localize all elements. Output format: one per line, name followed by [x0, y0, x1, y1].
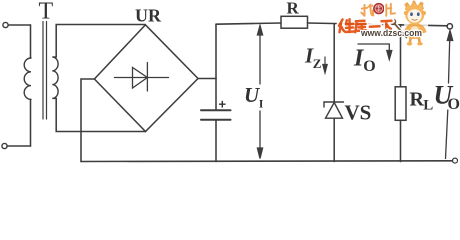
- terminal top-left: [3, 22, 8, 27]
- watermark text 维库一下: [339, 19, 392, 32]
- left arm: [404, 25, 411, 36]
- watermark glyph 找: [361, 5, 373, 16]
- transformer core: [42, 22, 44, 120]
- wire primary bottom: [7, 145, 31, 147]
- zener wire bottom: [333, 118, 335, 161]
- wire node up to top rail: [215, 24, 217, 78]
- legs: [410, 39, 420, 44]
- terminal bottom-right: [453, 158, 458, 163]
- wire capacitor bottom lead: [215, 121, 217, 162]
- svg-text:VS: VS: [345, 101, 372, 125]
- crown: [406, 1, 424, 10]
- svg-text:O: O: [448, 96, 460, 113]
- zener diode VS symbol: [324, 102, 344, 118]
- wire secondary bottom lead: [56, 98, 145, 131]
- svg-text:T: T: [39, 0, 54, 25]
- zener diode VS wire top: [333, 24, 335, 102]
- top rail to resistor R: [216, 23, 281, 24]
- bottom rail: [81, 160, 453, 163]
- svg-text:O: O: [363, 58, 375, 75]
- svg-text:L: L: [423, 98, 433, 114]
- terminal bottom-left: [2, 143, 7, 148]
- body: [408, 23, 423, 39]
- R_L wire bottom: [400, 120, 402, 161]
- I_O bent arrow: [358, 44, 392, 60]
- resistor R_L box: [395, 87, 406, 121]
- head: [405, 5, 424, 24]
- watermark glyph 片: [386, 4, 395, 16]
- white backing: [403, 2, 429, 44]
- svg-text:UR: UR: [135, 6, 162, 26]
- terminal top-right: [447, 24, 452, 29]
- capacitor C plates: [201, 109, 231, 111]
- I_Z arrow: [323, 57, 327, 73]
- R_L wire top: [400, 25, 402, 87]
- svg-text:+: +: [219, 97, 227, 112]
- top rail R to right terminal: [308, 23, 448, 26]
- watermark seal: [373, 3, 384, 14]
- stick: [394, 23, 407, 38]
- wire primary vertical top: [30, 25, 32, 58]
- watermark: [339, 1, 429, 46]
- svg-text:R: R: [287, 0, 300, 18]
- svg-text:I: I: [259, 97, 264, 111]
- wire capacitor top lead: [215, 79, 217, 110]
- wire primary top: [8, 24, 30, 26]
- winding secondary (transformer T): [52, 57, 58, 98]
- right arm: [421, 25, 427, 34]
- svg-text:www.dzsc.com: www.dzsc.com: [360, 28, 422, 39]
- bridge rectifier UR diamond: [94, 25, 198, 132]
- U_O arrow on right rail: [446, 31, 453, 159]
- watermark mascot: [390, 1, 429, 46]
- wire bridge right corner to node: [198, 78, 216, 80]
- svg-text:R: R: [410, 89, 425, 111]
- svg-text:Z: Z: [313, 56, 322, 71]
- resistor R box: [281, 16, 308, 28]
- wire primary vertical bottom: [30, 99, 32, 146]
- U_I arrow (double headed): [257, 26, 262, 159]
- diode inside bridge: [115, 63, 169, 92]
- wire secondary top lead: [56, 25, 145, 58]
- stick halo: [394, 23, 407, 38]
- wire bridge left corner to bottom rail: [81, 79, 94, 162]
- ears: [404, 11, 408, 15]
- winding primary (transformer T): [24, 58, 31, 99]
- eyes: [410, 12, 413, 16]
